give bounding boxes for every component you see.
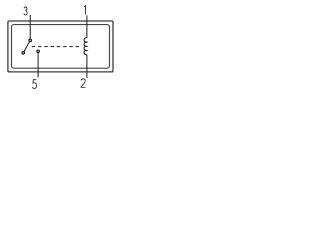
switch lever end circle: [22, 52, 25, 55]
coil L1: [84, 38, 87, 55]
switch contact circle (common): [29, 39, 32, 42]
relay body inner box: [12, 25, 110, 69]
relay body outer box: [8, 21, 113, 72]
pin 2 label: [81, 79, 85, 87]
wire pin 1: [86, 15, 88, 38]
wire pin 5: [37, 53, 39, 78]
mechanical link (dashed): [32, 46, 80, 48]
wire pin 2: [86, 55, 88, 78]
pin 3 label: [24, 7, 27, 15]
switch contact circle (pin 5 side): [37, 50, 40, 53]
switch lever: [24, 42, 30, 52]
pin 5 label: [33, 80, 37, 89]
wire pin 3: [29, 15, 31, 39]
pin 1 label: [84, 6, 85, 15]
